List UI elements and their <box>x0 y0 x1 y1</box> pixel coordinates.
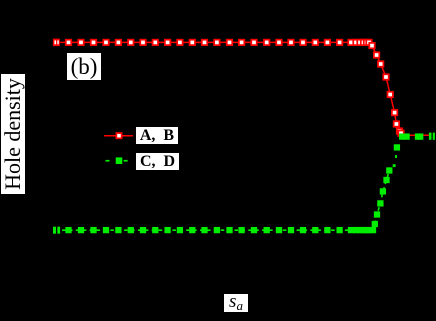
green curve C,D end cluster marker pair <box>429 133 435 140</box>
green curve C,D dashed line <box>62 165 391 230</box>
green curve C,D rise markers <box>372 133 424 227</box>
legend label A, B <box>136 127 178 144</box>
legend C,D green dashed sample dash left <box>106 160 110 162</box>
legend A,B red sample marker <box>116 132 123 139</box>
red curve A,B flat markers <box>65 39 373 46</box>
red curve A,B drop markers <box>368 42 404 137</box>
green curve C,D small dash on rise <box>395 155 397 158</box>
legend C,D green sample marker <box>116 157 123 164</box>
red curve A,B start cluster marker pair <box>53 39 60 47</box>
green curve C,D flat markers <box>65 227 376 233</box>
legend label C, D <box>136 153 179 170</box>
y-axis label: Hole density <box>1 74 25 194</box>
red curve A,B line <box>56 42 429 135</box>
legend C,D green dashed sample dash right <box>124 160 128 162</box>
panel label (b) <box>67 53 101 80</box>
green curve C,D start cluster marker pair <box>53 227 60 234</box>
legend A,B red sample line <box>104 135 133 137</box>
green curve C,D small square on rise <box>393 164 396 167</box>
x-axis label s_a <box>224 294 248 312</box>
